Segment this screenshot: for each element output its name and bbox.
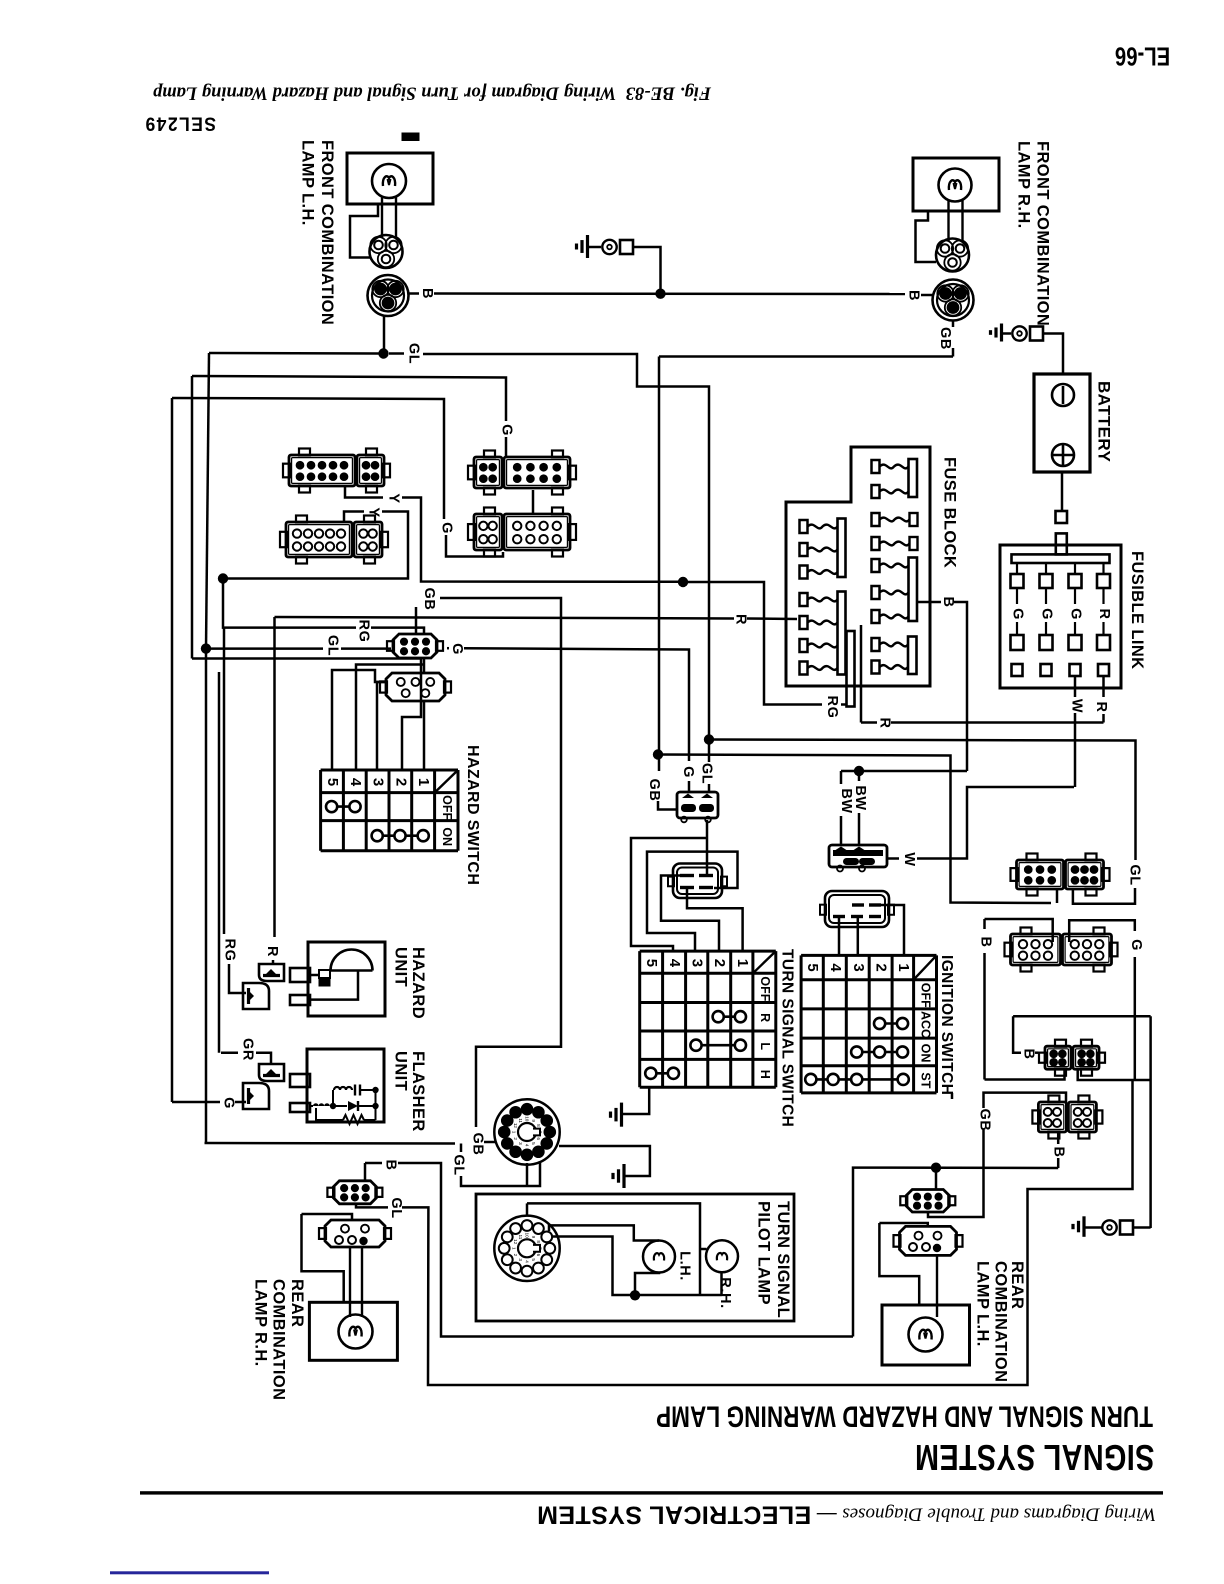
wire G from open pair <box>1069 920 1135 942</box>
fuse D2 <box>872 586 880 599</box>
fuse group G bus <box>838 592 846 675</box>
wire RG from junction <box>683 582 822 705</box>
wire pilot LH feed <box>549 1225 659 1240</box>
wire G into connector <box>505 437 508 457</box>
wire B from fuse block <box>917 601 941 604</box>
wire GB down <box>952 348 955 357</box>
wire mating stub hazard <box>423 659 426 674</box>
svg-text:4: 4 <box>525 1144 530 1147</box>
fusible link box <box>1000 545 1121 688</box>
svg-text:SIGNAL SYSTEM: SIGNAL SYSTEM <box>915 1437 1155 1478</box>
svg-text:ST: ST <box>919 1072 933 1088</box>
svg-text:R.H.: R.H. <box>717 1277 733 1308</box>
svg-text:OFF: OFF <box>919 983 933 1008</box>
wire G down long <box>1134 957 1137 1080</box>
wire2 G horizontal <box>658 755 1051 904</box>
ts switch H contacts <box>651 1072 674 1075</box>
svg-text:B: B <box>940 596 956 607</box>
svg-text:Y: Y <box>366 507 382 517</box>
svg-text:1: 1 <box>415 778 432 787</box>
lamp pilot LH <box>643 1241 675 1273</box>
node BW junction <box>854 766 864 776</box>
wire ig col4 <box>838 917 841 956</box>
hazard unit box <box>308 942 385 1016</box>
connector lamp LH harness side <box>368 275 409 316</box>
wire R vertical <box>273 617 276 937</box>
svg-text:R: R <box>1096 608 1112 619</box>
fuse G4 <box>800 662 808 675</box>
svg-text:1: 1 <box>511 1247 516 1250</box>
svg-text:R: R <box>264 946 280 957</box>
fusible link element 1 <box>1016 564 1018 575</box>
wire battery to fusible link <box>1061 472 1064 511</box>
wire GR horizontal <box>221 1051 238 1054</box>
svg-text:SEL249: SEL249 <box>144 114 216 136</box>
rear combination lamp R.H. box <box>309 1302 397 1360</box>
svg-text:8: 8 <box>536 1124 541 1127</box>
wire col1 hazard <box>423 701 426 770</box>
svg-text:12: 12 <box>513 1123 518 1129</box>
wire R horizontal <box>275 617 735 619</box>
connector lamp RH harness side <box>933 280 974 321</box>
node RG junction <box>678 577 688 587</box>
svg-text:ON: ON <box>440 827 454 846</box>
svg-text:G: G <box>1068 608 1084 620</box>
connector 8-pin filled right <box>1045 1046 1071 1069</box>
svg-text:UNIT: UNIT <box>392 947 410 987</box>
footer ELECTRICAL SYSTEM (rotated) <box>537 1501 1156 1529</box>
svg-text:2: 2 <box>513 1137 518 1140</box>
wire GL rear RH <box>356 1204 388 1207</box>
svg-text:REAR: REAR <box>288 1279 306 1327</box>
wire GB top <box>984 1093 1067 1108</box>
svg-text:COMBINATION: COMBINATION <box>992 1261 1010 1382</box>
svg-text:TURN SIGNAL AND HAZARD WARNING: TURN SIGNAL AND HAZARD WARNING LAMP <box>656 1400 1153 1434</box>
wire mating TR-BR <box>532 490 535 514</box>
svg-text:RG: RG <box>824 696 840 719</box>
wire pilot common <box>553 1237 722 1296</box>
svg-text:B: B <box>978 936 994 947</box>
svg-text:5: 5 <box>804 963 821 972</box>
svg-text:R: R <box>1093 701 1109 712</box>
svg-text:1: 1 <box>734 959 751 968</box>
wire circ2 top pin <box>526 1203 529 1216</box>
svg-text:BW: BW <box>838 788 854 813</box>
svg-text:10: 10 <box>525 1233 530 1239</box>
svg-text:3: 3 <box>518 1142 523 1145</box>
wire Y1 to RG junction <box>402 498 683 582</box>
hazard switch OFF contacts <box>332 805 355 808</box>
battery minus terminal <box>1052 384 1074 406</box>
fuse E2 <box>872 661 880 674</box>
bulb front lamp R.H. <box>939 169 972 202</box>
wire G top (y375) <box>192 376 506 421</box>
svg-text:4: 4 <box>525 1260 530 1263</box>
fusible link T-bus stem <box>1056 533 1067 554</box>
fuse E1 <box>872 638 880 651</box>
lamp pilot RH <box>706 1240 738 1272</box>
wire GB into black connector <box>658 801 678 810</box>
wire ig col3 <box>857 917 860 956</box>
svg-text:1: 1 <box>511 1131 516 1134</box>
fuse C <box>872 537 880 550</box>
svg-text:4: 4 <box>347 778 364 787</box>
svg-text:FUSE BLOCK: FUSE BLOCK <box>941 457 959 568</box>
wire lamp LH pigtails <box>381 196 383 237</box>
wire lamp RH step <box>916 211 937 262</box>
wire lamp LH step <box>350 204 378 258</box>
circular connector vehicle 12-pin <box>494 1216 559 1281</box>
svg-text:EL-66: EL-66 <box>1115 42 1170 71</box>
svg-text:B: B <box>906 290 922 301</box>
wire G right to black connector <box>464 648 689 761</box>
svg-text:G: G <box>1128 939 1144 951</box>
svg-text:OFF: OFF <box>440 795 454 820</box>
wire G to flasher <box>172 1101 220 1104</box>
svg-text:Fig. BE-83 Wiring Diagram for: Fig. BE-83 Wiring Diagram for Turn Signa… <box>153 83 712 103</box>
ground circular connector <box>622 1164 625 1188</box>
svg-text:BATTERY: BATTERY <box>1095 381 1114 462</box>
svg-text:5: 5 <box>531 1258 536 1261</box>
wire G bottom horizontal <box>1078 1069 1151 1080</box>
node Y2 junction <box>218 573 228 583</box>
wire lamp RH pigtails <box>947 200 949 241</box>
connector rear LH lamp side <box>900 1226 957 1255</box>
wire B front <box>408 292 419 295</box>
wire RG bar in fuse block <box>847 631 855 707</box>
svg-text:FUSIBLE LINK: FUSIBLE LINK <box>1128 551 1146 669</box>
wire GR vertical <box>218 672 221 1053</box>
svg-text:GB: GB <box>937 327 953 350</box>
wire BW 1 <box>840 771 843 784</box>
wire ts col5 to ground <box>622 1087 650 1114</box>
svg-text:IGNITION SWITCH: IGNITION SWITCH <box>938 955 955 1095</box>
svg-text:GL: GL <box>699 763 715 784</box>
svg-text:2: 2 <box>513 1254 518 1257</box>
connector 12-pin top-left (harness) <box>289 455 355 486</box>
svg-text:B: B <box>383 1159 399 1170</box>
hazard switch diagonal <box>435 770 458 793</box>
connector 12-pin top-right (harness) <box>474 457 502 488</box>
svg-text:BW: BW <box>852 785 868 810</box>
svg-text:1: 1 <box>895 963 912 972</box>
svg-text:G: G <box>439 522 455 534</box>
connector inline hazard <box>259 964 284 981</box>
flasher unit box <box>307 1049 384 1122</box>
svg-text:H: H <box>758 1070 772 1079</box>
hazard unit prong 2 <box>290 995 310 1005</box>
wire ground net vertical <box>1149 1016 1152 1228</box>
svg-text:LAMP L.H.: LAMP L.H. <box>299 140 317 226</box>
svg-text:RG: RG <box>356 620 372 643</box>
fusible link element 3 <box>1074 564 1076 575</box>
wire GL to circular connector <box>205 1142 456 1145</box>
flasher unit prong 1 <box>290 1074 310 1087</box>
fuse D1 <box>872 559 880 572</box>
wire W right <box>917 787 1074 859</box>
circular connector harness 12-pin <box>494 1099 559 1164</box>
node GB wire2 junction <box>653 749 663 759</box>
svg-text:G: G <box>1039 608 1055 620</box>
svg-text:GB: GB <box>421 588 437 611</box>
hazard switch ON contacts <box>377 834 423 837</box>
node GL left junction <box>201 643 211 653</box>
wire GL into hazard connector <box>341 647 391 650</box>
svg-text:3: 3 <box>689 959 706 968</box>
wire RG vertical to label <box>223 628 226 934</box>
wire GR into flasher connector <box>256 1053 271 1064</box>
fuse A2 <box>872 485 880 498</box>
wire GB right <box>440 598 561 1127</box>
connector turn signal switch <box>673 864 722 899</box>
svg-text:GB: GB <box>977 1109 993 1132</box>
node pilot junction <box>630 1290 640 1300</box>
svg-text:Y: Y <box>386 493 402 503</box>
wire B fuse to BW branch <box>841 770 967 773</box>
wire GB from lamp RH <box>952 321 955 328</box>
wire RG vertical left <box>223 579 356 628</box>
bulb front lamp L.H. <box>372 164 406 198</box>
wire GL left <box>377 352 384 355</box>
connector rear LH harness (black) <box>906 1190 949 1213</box>
svg-text:G: G <box>449 643 465 655</box>
svg-text:GB: GB <box>646 779 662 802</box>
node GL junction <box>378 348 388 358</box>
wire pilot RH bottom <box>720 1272 723 1295</box>
connector inline flasher <box>259 1064 284 1081</box>
flasher unit internals <box>334 1087 352 1090</box>
svg-text:LAMP L.H.: LAMP L.H. <box>974 1261 992 1347</box>
front combination lamp R.H. box <box>913 158 999 211</box>
svg-text:4: 4 <box>666 959 683 968</box>
ring terminal front left <box>602 240 616 254</box>
svg-text:5: 5 <box>531 1142 536 1145</box>
svg-text:W: W <box>901 852 917 866</box>
wire B to lamp RH <box>921 294 933 297</box>
ring terminal front right <box>1012 326 1026 340</box>
svg-text:FRONT COMBINATION: FRONT COMBINATION <box>1034 141 1052 326</box>
wire W from fusible link <box>1074 676 1077 697</box>
wire B to rear LH connector <box>935 1168 938 1190</box>
wire GB from ignition area <box>928 1130 984 1217</box>
svg-text:TURN SIGNAL SWITCH: TURN SIGNAL SWITCH <box>779 949 796 1127</box>
svg-text:OFF: OFF <box>758 976 772 1001</box>
svg-text:B: B <box>1051 1146 1067 1157</box>
svg-text:2: 2 <box>711 959 728 968</box>
connector rear RH lamp side <box>325 1220 385 1247</box>
fusible link element 4 <box>1102 564 1104 575</box>
wire B horizontal rear <box>853 1168 1058 1337</box>
connector black BW (ignition harness) <box>829 845 887 867</box>
wire B from 8pin open <box>1057 1132 1060 1144</box>
wire TS col3 path <box>647 852 738 952</box>
fusible link T-bus bar <box>1012 554 1110 563</box>
svg-text:2: 2 <box>873 963 890 972</box>
wire R from fusible link <box>1102 676 1105 697</box>
svg-text:Wiring Diagrams and Trouble Di: Wiring Diagrams and Trouble Diagnoses — … <box>537 1501 1156 1529</box>
svg-text:L: L <box>758 1042 772 1050</box>
svg-text:L.H.: L.H. <box>677 1251 693 1281</box>
wire GL rear loop <box>402 1080 1133 1385</box>
ignition stub below <box>951 1093 954 1099</box>
hazard unit internals <box>319 970 330 978</box>
wire B bottom horizontal <box>985 1069 1065 1080</box>
left vertical G y375 net <box>191 376 194 659</box>
connector black 4-pin (hazard feed) <box>677 792 718 818</box>
node B ground junction <box>655 289 665 299</box>
svg-text:5: 5 <box>324 778 341 787</box>
wire GB horizontal <box>659 355 953 358</box>
svg-text:W: W <box>1069 699 1085 713</box>
wire B rear loop <box>398 1163 853 1337</box>
wire branch to col4 <box>631 838 707 951</box>
wire col4 hazard <box>356 665 424 771</box>
svg-text:GL: GL <box>1126 864 1142 885</box>
hazard unit prong 1 <box>290 968 310 982</box>
left vertical GL net <box>206 353 209 649</box>
ignition diagonal <box>914 955 937 979</box>
fuse group E bus <box>908 637 917 675</box>
svg-text:HAZARD SWITCH: HAZARD SWITCH <box>464 745 481 885</box>
svg-text:B: B <box>419 288 435 299</box>
wire RG into inline connector <box>229 964 246 993</box>
ground front left <box>586 235 589 258</box>
svg-text:G: G <box>221 1097 237 1109</box>
connector hazard switch 6-pin <box>386 673 445 701</box>
svg-text:R: R <box>877 717 893 728</box>
svg-text:G: G <box>680 766 696 778</box>
svg-text:ACC: ACC <box>919 1011 933 1038</box>
bulb rear RH <box>339 1315 373 1349</box>
wire circ conn bottom stub <box>526 1163 529 1186</box>
wire lamp LH down to GL <box>383 316 386 354</box>
wire pilot RH feed <box>527 1203 700 1295</box>
ground rear right <box>1082 1216 1085 1237</box>
wire GL into black connector <box>708 740 711 763</box>
left vertical G net <box>171 398 174 1102</box>
bulb rear LH <box>909 1318 943 1352</box>
wire Y2 to left <box>223 512 408 579</box>
svg-text:UNIT: UNIT <box>392 1051 410 1091</box>
rear combination lamp L.H. box <box>882 1305 970 1365</box>
connector rear RH harness (black) <box>333 1181 376 1204</box>
node B rear junction <box>931 1163 941 1173</box>
fuse group D bus <box>909 558 918 622</box>
ts switch L contacts <box>696 1044 740 1047</box>
wire A y658 <box>192 659 421 771</box>
svg-text:9: 9 <box>531 1236 536 1239</box>
turn signal switch table <box>638 951 641 1087</box>
svg-text:6: 6 <box>536 1254 541 1257</box>
connector lamp LH bulb side <box>370 235 403 268</box>
ig ACC contacts <box>880 1022 903 1025</box>
wire G into black connector <box>688 781 691 792</box>
fuse G1 <box>800 593 808 606</box>
battery box <box>1034 374 1090 472</box>
wire rear LH step <box>879 1223 927 1226</box>
fuse D3 <box>872 610 880 623</box>
svg-text:4: 4 <box>827 963 844 972</box>
fuse A1 <box>872 460 880 473</box>
wire G (y398) <box>172 398 444 519</box>
connector ignition switch <box>825 891 889 927</box>
svg-text:3: 3 <box>518 1258 523 1261</box>
wire TS conn top-right pin <box>706 820 709 876</box>
wire B down <box>954 602 967 771</box>
svg-text:FRONT COMBINATION: FRONT COMBINATION <box>318 140 336 325</box>
connector 12-pin pair open right <box>1011 934 1061 965</box>
ig ST contacts <box>811 1078 903 1081</box>
wire BW 2 <box>858 771 861 781</box>
fuse B <box>872 513 880 526</box>
node GL junction 709 <box>704 734 714 744</box>
svg-text:GR: GR <box>240 1038 256 1061</box>
wire rear LH pigtail <box>936 1256 938 1318</box>
wire col3 hazard <box>377 682 386 770</box>
battery plus terminal <box>1052 444 1074 466</box>
wire ground to battery <box>1044 334 1064 375</box>
wire TS col1 path <box>687 888 743 951</box>
svg-text:TURN SIGNAL: TURN SIGNAL <box>774 1201 792 1318</box>
svg-text:R: R <box>758 1013 772 1022</box>
svg-text:HAZARD: HAZARD <box>409 947 427 1019</box>
small black mark <box>402 133 419 141</box>
svg-text:5: 5 <box>643 959 660 968</box>
svg-text:GL: GL <box>406 343 422 364</box>
wire circ conn right to ground <box>559 1146 650 1176</box>
wire ig col1 <box>881 905 904 955</box>
fuse F2 <box>800 543 808 556</box>
wire pilot LH bottom <box>635 1273 659 1296</box>
wire GB from hazard connector <box>415 607 418 634</box>
wire B front long <box>434 292 905 295</box>
svg-text:3: 3 <box>370 778 387 787</box>
svg-text:3: 3 <box>850 963 867 972</box>
connector 12-pin mid-left (body) <box>286 522 352 557</box>
wire GB RH vertical <box>658 357 661 772</box>
wire rear RH pigtails <box>349 1247 351 1317</box>
svg-text:6: 6 <box>536 1137 541 1140</box>
connector 8-pin open right <box>1038 1102 1066 1132</box>
wire W to BW connector <box>888 857 899 860</box>
svg-text:B: B <box>1021 1048 1037 1059</box>
wire ground to B wire <box>634 247 661 294</box>
wire rear RH step <box>302 1214 353 1220</box>
svg-text:GL: GL <box>451 1154 467 1175</box>
svg-text:12: 12 <box>513 1239 518 1245</box>
svg-text:LAMP R.H.: LAMP R.H. <box>252 1279 270 1367</box>
svg-text:R: R <box>733 614 749 625</box>
connector hazard harness 6-pin <box>393 634 437 658</box>
wire pilot RH stub <box>700 1248 707 1251</box>
blue mark bottom left <box>110 1571 269 1574</box>
wire B from open pair <box>985 919 1053 942</box>
wire G to connector BR <box>446 535 503 557</box>
svg-text:G: G <box>1010 608 1026 620</box>
svg-text:ON: ON <box>919 1044 933 1063</box>
fuse G3 <box>800 639 808 652</box>
svg-text:8: 8 <box>536 1240 541 1243</box>
ignition switch table <box>800 955 803 1093</box>
fuse block outline <box>786 447 930 686</box>
svg-text:REAR: REAR <box>1008 1261 1026 1309</box>
wire GL stubs <box>389 352 404 355</box>
wire Y1 from connector <box>345 487 383 498</box>
fuse G2 <box>800 616 808 629</box>
ring terminal rear right <box>1102 1220 1116 1234</box>
ground front right <box>1000 324 1003 342</box>
wire R inside fuse block <box>860 625 863 723</box>
